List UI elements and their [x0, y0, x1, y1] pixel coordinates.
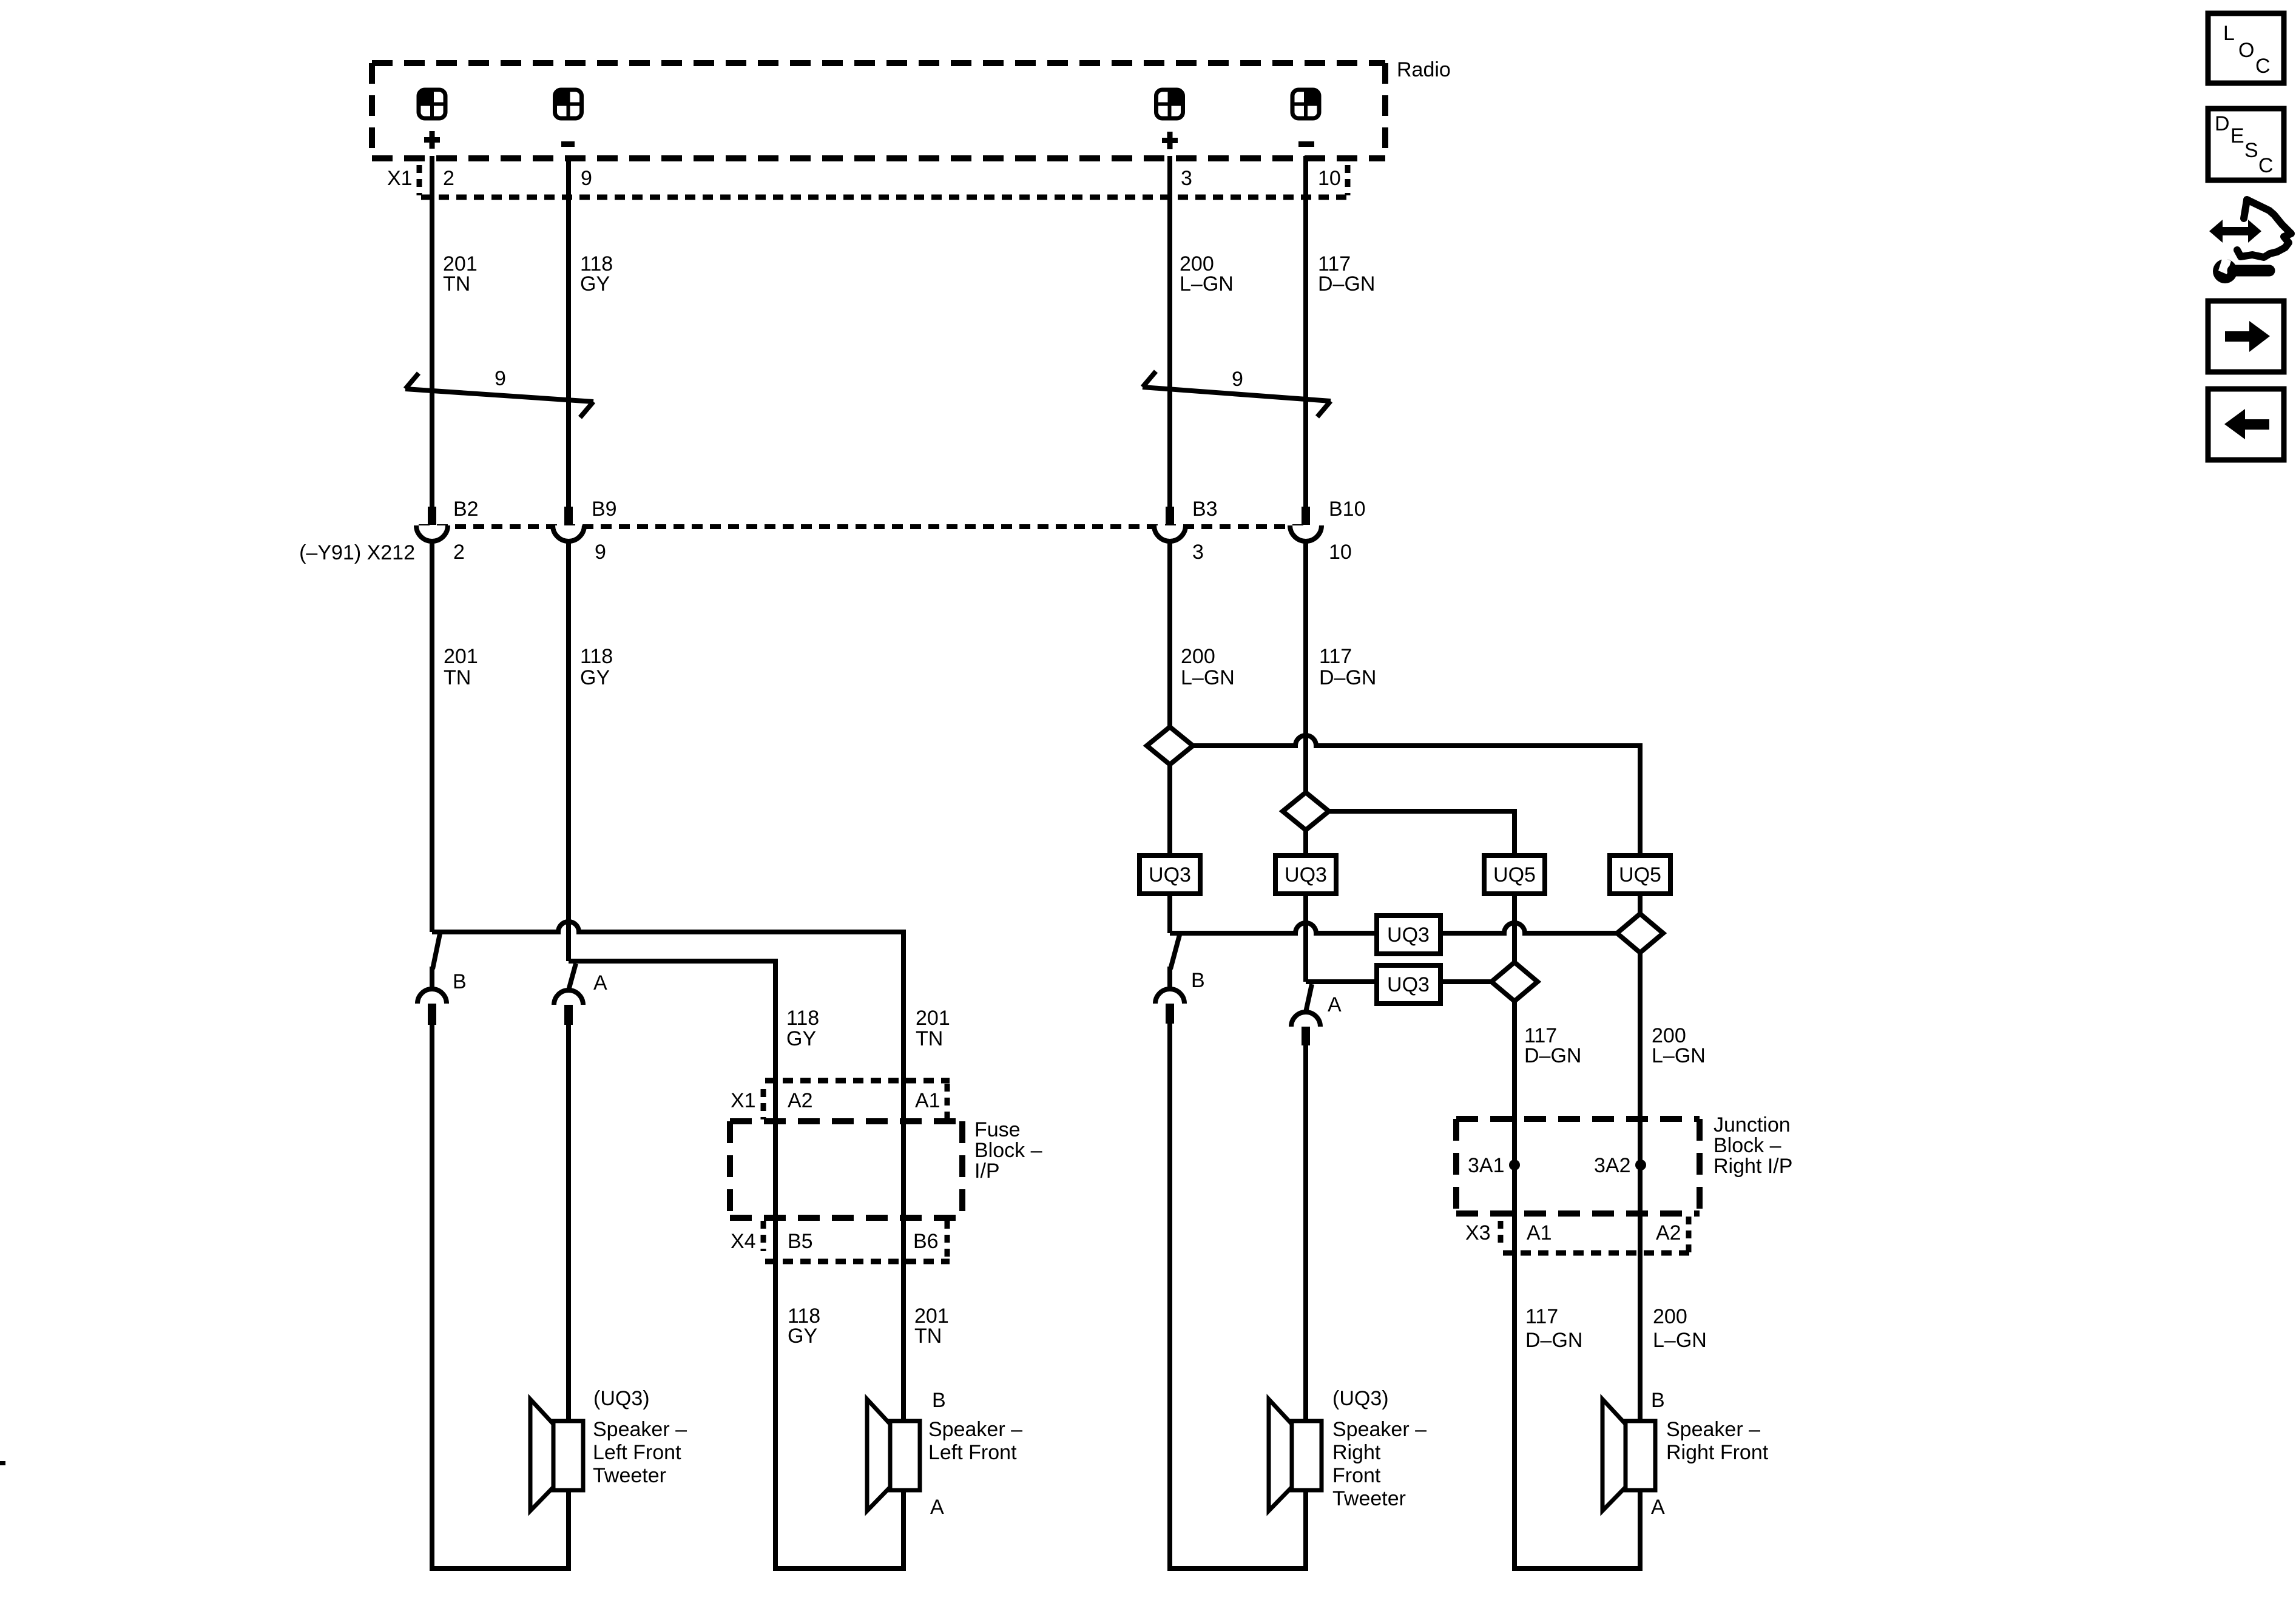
option box UQ3 (117 D-GN): [1275, 856, 1336, 894]
svg-text:X4: X4: [731, 1230, 756, 1253]
svg-text:B5: B5: [788, 1230, 813, 1253]
radio pin cavity symbol (pin 3, +): [1156, 90, 1183, 118]
icon box DESC: [2208, 109, 2284, 180]
svg-text:UQ5: UQ5: [1619, 863, 1661, 886]
connector name X1 (fuse block): [731, 1089, 756, 1112]
svg-text:(–Y91) X212: (–Y91) X212: [299, 541, 415, 564]
wire label 117 D-GN (top): [1318, 252, 1375, 295]
connector name X1: [387, 167, 413, 190]
icon wrench: [2213, 257, 2269, 283]
svg-text:2: 2: [453, 541, 465, 564]
svg-text:117: 117: [1525, 1305, 1558, 1328]
svg-text:B: B: [453, 970, 467, 993]
inline terminal B (201 TN tweeter): [417, 934, 447, 1025]
speaker branch wire right (117 D-GN to splice diamond): [1306, 979, 1491, 984]
svg-text:L–GN: L–GN: [1180, 272, 1234, 295]
wire label 200 L-GN (above junction block): [1652, 1024, 1706, 1067]
wire label 201 TN (top): [443, 252, 478, 295]
svg-text:D–GN: D–GN: [1525, 1329, 1582, 1352]
svg-text:B9: B9: [592, 498, 617, 521]
wire 118 GY segment X212 to speaker junction: [566, 541, 571, 961]
svg-text:Radio: Radio: [1397, 58, 1451, 81]
connector name X4 (fuse block): [731, 1230, 756, 1253]
svg-text:Block –: Block –: [1714, 1134, 1781, 1157]
wire label 118 GY (below fuse block): [788, 1305, 820, 1348]
svg-text:GY: GY: [580, 272, 610, 295]
svg-text:B: B: [1191, 969, 1205, 992]
tweeter branch wire left (201 TN to fuse block A1): [432, 922, 903, 1423]
wire label 201 TN (middle): [444, 645, 478, 689]
wire branch 200 L-GN splice to UQ5 right drop: [1193, 735, 1640, 856]
wire 200 L-GN segment splice to UQ3: [1167, 765, 1172, 856]
svg-text:Fuse: Fuse: [974, 1118, 1021, 1141]
wire label 201 TN (below fuse block): [914, 1305, 949, 1348]
svg-text:Speaker –: Speaker –: [1666, 1418, 1760, 1441]
svg-text:UQ3: UQ3: [1149, 863, 1191, 886]
page margin tick: [0, 1461, 5, 1465]
svg-text:Tweeter: Tweeter: [593, 1464, 666, 1487]
icon box back arrow: [2208, 389, 2284, 460]
pin 2 label (X212): [453, 541, 465, 564]
wire 201 TN segment X212 to tweeter junction: [430, 541, 434, 932]
pin B9 label: [592, 498, 617, 521]
pin 9 label (radio X1): [581, 167, 592, 190]
wire 200 L-GN segment UQ3 to junction: [1167, 894, 1172, 933]
wire 117 D-GN diamond through junction block to right speaker loop: [1514, 1001, 1640, 1568]
svg-text:Speaker –: Speaker –: [593, 1418, 687, 1441]
svg-text:201: 201: [916, 1007, 950, 1030]
fuse block X1 strip outline: [763, 1081, 950, 1120]
svg-text:UQ3: UQ3: [1387, 923, 1430, 947]
pin A1 label (X3): [1527, 1221, 1552, 1244]
pin A2 label: [788, 1089, 813, 1112]
wire label 117 D-GN (below junction block): [1525, 1305, 1582, 1352]
pin 9 label (X212): [595, 541, 606, 564]
svg-text:L–GN: L–GN: [1181, 666, 1235, 689]
X212 terminal B3/3: [1154, 507, 1186, 541]
svg-text:3: 3: [1192, 541, 1204, 564]
speaker left front symbol: [867, 1399, 920, 1511]
svg-text:3A2: 3A2: [1594, 1154, 1631, 1177]
wire 200 L-GN diamond to right speaker: [1638, 953, 1643, 1423]
svg-text:A: A: [593, 971, 607, 994]
fuse block X4 strip outline: [763, 1221, 950, 1261]
label 9 (right harness): [1232, 368, 1243, 391]
svg-text:200: 200: [1181, 645, 1215, 668]
svg-text:3: 3: [1181, 167, 1192, 190]
svg-text:A2: A2: [1656, 1221, 1681, 1244]
fuse block I/P dashed box: [730, 1121, 962, 1218]
svg-text:B: B: [932, 1389, 946, 1412]
svg-text:X1: X1: [387, 167, 413, 190]
pin 3 label (X212): [1192, 541, 1204, 564]
svg-text:Tweeter: Tweeter: [1332, 1487, 1406, 1510]
wire label 118 GY (above fuse block): [786, 1007, 819, 1050]
pin A2 label (X3): [1656, 1221, 1681, 1244]
wire 200 L-GN terminal to right tweeter loop: [1170, 1024, 1306, 1568]
svg-text:(UQ3): (UQ3): [1332, 1387, 1389, 1410]
inline terminal A (117 D-GN speaker right): [1291, 984, 1320, 1045]
svg-text:TN: TN: [443, 272, 470, 295]
svg-text:X3: X3: [1465, 1221, 1491, 1244]
svg-text:C: C: [2255, 55, 2271, 78]
speaker right front symbol: [1602, 1399, 1655, 1511]
svg-text:9: 9: [495, 367, 506, 390]
pin 10 label (radio X1): [1318, 167, 1341, 190]
terminal label A (right speaker): [1328, 993, 1342, 1016]
svg-text:GY: GY: [788, 1325, 817, 1348]
svg-text:A: A: [930, 1496, 944, 1519]
terminal label B (left tweeter): [453, 970, 467, 993]
svg-text:D: D: [2215, 112, 2230, 135]
polarity - (pin 10): [1298, 141, 1314, 147]
terminal label A (left front speaker): [930, 1496, 944, 1519]
pin B5 label: [788, 1230, 813, 1253]
svg-text:I/P: I/P: [974, 1160, 1000, 1183]
svg-text:Front: Front: [1332, 1464, 1381, 1487]
terminal label B (right tweeter): [1191, 969, 1205, 992]
icon double arrow: [2209, 220, 2261, 243]
icon outline shape: [2237, 200, 2291, 257]
X212 terminal B10/10: [1290, 507, 1322, 541]
svg-text:D–GN: D–GN: [1319, 666, 1376, 689]
wire 117 D-GN segment radio pin10 to X212: [1303, 156, 1308, 507]
wire x8 200 L-GN segment UQ5 to diamond: [1638, 894, 1643, 914]
speaker left front tweeter label: [593, 1387, 687, 1487]
svg-text:D–GN: D–GN: [1318, 272, 1375, 295]
pin 3 label (radio X1): [1181, 167, 1192, 190]
wire 118 GY segment radio pin9 to X212: [566, 156, 571, 507]
wire 200 L-GN segment radio pin3 to X212: [1167, 156, 1172, 507]
wire x7 117 D-GN segment UQ5 to diamond: [1512, 894, 1517, 962]
wire 201 TN terminal to left tweeter loop: [432, 1025, 569, 1568]
radio pin cavity symbol (pin 2, +): [419, 90, 445, 118]
svg-text:X1: X1: [731, 1089, 756, 1112]
fuse block label: [974, 1118, 1042, 1183]
wire label 118 GY (top): [580, 252, 613, 295]
inline terminal B (200 L-GN tweeter right): [1155, 935, 1184, 1024]
speaker right front tweeter label: [1332, 1387, 1427, 1510]
svg-text:A: A: [1328, 993, 1342, 1016]
speaker left front label: [928, 1418, 1022, 1464]
speaker branch wire left (118 GY to fuse block A2): [569, 961, 903, 1568]
junction block X3 strip outline: [1501, 1217, 1690, 1253]
svg-text:C: C: [2258, 154, 2274, 177]
svg-text:10: 10: [1329, 541, 1352, 564]
pin A1 label: [915, 1089, 940, 1112]
speaker left front tweeter symbol: [530, 1399, 583, 1511]
pin B10 label: [1329, 498, 1366, 521]
option box UQ3 (200 L-GN): [1140, 856, 1200, 894]
junction block label: [1714, 1113, 1792, 1178]
X212 terminal B2/2: [416, 507, 448, 541]
harness break slash left (9 wires): [405, 373, 593, 417]
option box UQ5 (200 L-GN drop): [1610, 856, 1670, 894]
svg-text:GY: GY: [786, 1027, 816, 1050]
svg-text:201: 201: [444, 645, 478, 668]
terminal label B (left front speaker): [932, 1389, 946, 1412]
svg-text:TN: TN: [444, 666, 471, 689]
wire label 201 TN (above fuse block): [916, 1007, 950, 1050]
splice diamond on 117 D-GN: [1283, 792, 1329, 830]
wire label 117 D-GN (above junction block): [1524, 1024, 1581, 1067]
svg-text:10: 10: [1318, 167, 1341, 190]
wire label 200 L-GN (top): [1180, 252, 1234, 295]
svg-text:B6: B6: [913, 1230, 939, 1253]
svg-text:D–GN: D–GN: [1524, 1044, 1581, 1067]
inline connector X212 dotted line: [419, 524, 1308, 529]
label 9 (left harness): [495, 367, 506, 390]
svg-text:A1: A1: [1527, 1221, 1552, 1244]
wire 200 L-GN segment X212 to splice: [1167, 541, 1172, 727]
svg-text:Speaker –: Speaker –: [928, 1418, 1022, 1441]
Radio component dashed box: [372, 63, 1385, 158]
radio pin cavity symbol (pin 9, -): [555, 90, 582, 118]
wire 118 GY terminal to left tweeter: [566, 1025, 571, 1423]
svg-text:Right Front: Right Front: [1666, 1441, 1769, 1464]
svg-text:E: E: [2230, 124, 2244, 147]
junction block dashed box: [1456, 1119, 1700, 1214]
svg-text:118: 118: [580, 645, 613, 668]
svg-text:A: A: [1651, 1496, 1665, 1519]
pin B3 label: [1192, 498, 1218, 521]
svg-text:TN: TN: [914, 1325, 942, 1348]
svg-text:L–GN: L–GN: [1652, 1044, 1706, 1067]
svg-text:O: O: [2238, 39, 2254, 62]
svg-text:TN: TN: [916, 1027, 943, 1050]
svg-text:9: 9: [1232, 368, 1243, 391]
pin 10 label (X212): [1329, 541, 1352, 564]
wire label 200 L-GN (below junction block): [1653, 1305, 1707, 1352]
splice diamond on x7 drop: [1491, 962, 1538, 1001]
svg-text:GY: GY: [580, 666, 610, 689]
polarity + (pin 2): [424, 131, 440, 149]
node 3A2: [1594, 1154, 1646, 1177]
svg-text:Block –: Block –: [974, 1139, 1042, 1162]
connector name X3: [1465, 1221, 1491, 1244]
svg-text:L: L: [2223, 22, 2235, 45]
wire 117 D-GN segment UQ3 to junction: [1303, 894, 1308, 982]
pin B6 label: [913, 1230, 939, 1253]
svg-text:L–GN: L–GN: [1653, 1329, 1707, 1352]
wire 117 D-GN segment splice to UQ3: [1303, 830, 1308, 856]
svg-text:UQ3: UQ3: [1387, 973, 1430, 996]
splice diamond on x8 drop: [1617, 914, 1663, 953]
radio connector X1 strip outline: [419, 165, 1350, 197]
pin 2 label (radio X1): [443, 167, 454, 190]
harness break slash right (9 wires): [1143, 371, 1331, 417]
terminal label A (left speaker): [593, 971, 607, 994]
wire 201 TN segment radio pin2 to X212: [430, 156, 434, 507]
splice diamond on 200 L-GN: [1147, 727, 1193, 765]
polarity - (pin 9): [561, 141, 575, 147]
wire 117 D-GN segment X212 to splice: [1303, 541, 1308, 792]
speaker right front label: [1666, 1418, 1769, 1464]
svg-text:B3: B3: [1192, 498, 1218, 521]
connector label (-Y91) X212: [299, 541, 415, 564]
wire label 118 GY (middle): [580, 645, 613, 689]
svg-text:9: 9: [581, 167, 592, 190]
svg-text:200: 200: [1653, 1305, 1687, 1328]
svg-text:B10: B10: [1329, 498, 1366, 521]
svg-text:Speaker –: Speaker –: [1332, 1418, 1427, 1441]
svg-text:(UQ3): (UQ3): [593, 1387, 650, 1410]
svg-text:Right: Right: [1332, 1441, 1381, 1464]
svg-text:3A1: 3A1: [1468, 1154, 1505, 1177]
svg-text:117: 117: [1319, 645, 1352, 668]
wire label 117 D-GN (middle): [1319, 645, 1376, 689]
svg-text:S: S: [2244, 139, 2258, 162]
pin B2 label: [453, 498, 479, 521]
svg-text:Left Front: Left Front: [928, 1441, 1017, 1464]
icon box LOC: [2208, 13, 2284, 83]
speaker right front tweeter symbol: [1269, 1399, 1322, 1511]
option box UQ3 (inline upper): [1377, 916, 1440, 954]
svg-text:118: 118: [786, 1007, 819, 1030]
terminal label B (right front speaker): [1651, 1389, 1665, 1412]
svg-text:B: B: [1651, 1389, 1665, 1412]
terminal label A (right front speaker): [1651, 1496, 1665, 1519]
radio pin cavity symbol (pin 10, -): [1292, 90, 1319, 118]
svg-text:Left Front: Left Front: [593, 1441, 681, 1464]
svg-text:A2: A2: [788, 1089, 813, 1112]
svg-text:B2: B2: [453, 498, 479, 521]
svg-text:Junction: Junction: [1714, 1113, 1791, 1136]
svg-text:9: 9: [595, 541, 606, 564]
svg-text:Right I/P: Right I/P: [1714, 1155, 1792, 1178]
option box UQ3 (inline lower): [1377, 965, 1440, 1004]
wire label 200 L-GN (middle): [1181, 645, 1235, 689]
wire 117 D-GN terminal to right tweeter: [1303, 1045, 1308, 1423]
Radio label: [1397, 58, 1451, 81]
node 3A1: [1468, 1154, 1520, 1177]
option box UQ5 (117 D-GN drop): [1484, 856, 1545, 894]
X212 terminal B9/9: [553, 507, 584, 541]
svg-text:A1: A1: [915, 1089, 940, 1112]
tweeter branch wire right (200 L-GN to splice diamond): [1170, 923, 1617, 933]
wire branch 117 D-GN splice to UQ5 left drop: [1329, 811, 1514, 856]
inline terminal A (118 GY speaker): [554, 964, 583, 1025]
polarity + (pin 3): [1162, 132, 1178, 149]
svg-text:2: 2: [443, 167, 454, 190]
svg-text:UQ3: UQ3: [1285, 863, 1327, 886]
svg-text:UQ5: UQ5: [1493, 863, 1536, 886]
icon box forward arrow: [2208, 301, 2284, 372]
